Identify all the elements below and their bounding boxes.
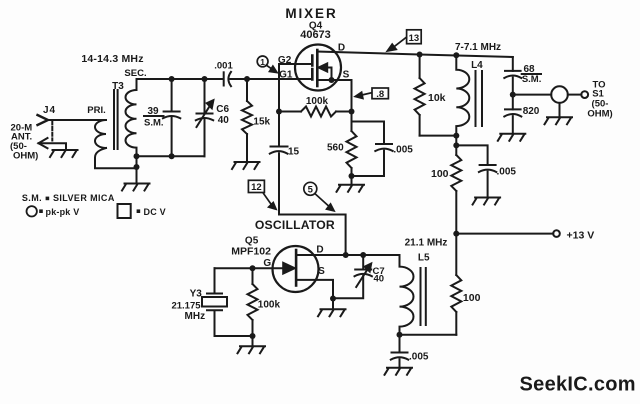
transistor Q5 gate arrow — [283, 263, 294, 274]
svg-text:MHz: MHz — [185, 311, 206, 322]
transformer T3 primary — [95, 120, 137, 168]
transistor Q5 channel — [295, 250, 298, 286]
svg-text:S.M.: S.M. — [522, 74, 542, 85]
wire (10k to L4 bottom) — [420, 135, 457, 137]
inductor L4 core — [476, 71, 483, 126]
capacitor C.001 — [224, 72, 231, 86]
junction (L4 bottom) — [453, 133, 459, 139]
svg-text:40: 40 — [218, 115, 230, 126]
svg-text:100k: 100k — [306, 96, 329, 107]
transistor Q5 oscillator JFET body — [273, 246, 319, 292]
resistor 10k — [415, 55, 425, 136]
svg-text:15k: 15k — [253, 117, 270, 128]
wire (oscillator injection) — [279, 153, 346, 255]
wire (+13V rail) — [456, 233, 553, 235]
svg-text:OHM): OHM) — [13, 150, 38, 161]
transistor Q4 channel — [316, 50, 319, 86]
capacitor 15 — [270, 79, 288, 154]
ground (560) — [337, 185, 365, 192]
junction (Q5 source gnd) — [330, 296, 336, 302]
wire (Q5 source) — [296, 280, 333, 309]
wire (top rail G1 line) — [137, 78, 224, 80]
capacitor 820 — [504, 95, 521, 134]
svg-text:S.M.: S.M. — [144, 118, 164, 129]
junction (crystal bottom) — [250, 333, 256, 339]
svg-text:21.1 MHz: 21.1 MHz — [405, 237, 448, 248]
junction (Q5 gate) — [250, 265, 256, 271]
transistor Q4 substrate arrow — [319, 63, 332, 80]
wire (output to S1) — [513, 94, 551, 96]
svg-text:SEC.: SEC. — [124, 68, 146, 79]
resistor 100k mixer — [279, 107, 352, 117]
legend DC square — [118, 204, 131, 218]
resistor 100k oscillator — [248, 268, 258, 336]
svg-text:1: 1 — [260, 57, 265, 67]
capacitor 68 S.M. — [504, 57, 521, 95]
svg-text:5: 5 — [308, 184, 314, 195]
svg-text:.8: .8 — [376, 89, 384, 100]
svg-text:SeekIC.com: SeekIC.com — [520, 374, 636, 396]
svg-text:820: 820 — [523, 106, 540, 117]
wire (L5 bottom rail) — [400, 334, 457, 336]
node 12 callout — [248, 180, 275, 209]
capacitor .005 mixer source — [352, 122, 393, 177]
ground (820) — [498, 134, 526, 141]
svg-text:D: D — [338, 43, 345, 54]
node 1 callout — [257, 56, 277, 72]
resistor 560 — [347, 112, 357, 177]
legend equals marks — [39, 197, 140, 213]
resistor 100 lower — [451, 234, 461, 335]
fraction bar 68 — [522, 73, 541, 75]
wire (Q5 gate) — [215, 267, 286, 269]
svg-text:40673: 40673 — [300, 29, 331, 41]
junction (L4 top) — [453, 52, 459, 58]
junction (39 cap bottom) — [169, 153, 175, 159]
wire (Q4 source) — [317, 80, 351, 112]
junction (output node) — [510, 92, 516, 98]
transformer T3 core — [114, 90, 118, 149]
svg-text:21.175: 21.175 — [171, 301, 201, 312]
crystal Y3 — [202, 268, 253, 346]
capacitor .005 drain — [456, 145, 496, 197]
junction (C6 top) — [202, 76, 208, 82]
wire (Q5 drain rail) — [296, 254, 399, 256]
ground (T3) — [122, 184, 150, 191]
resistor 100 upper — [451, 145, 461, 233]
connector S1 jack — [551, 86, 588, 117]
svg-text:L4: L4 — [471, 60, 483, 71]
ground (15k) — [232, 162, 260, 169]
svg-text:T3: T3 — [112, 81, 124, 92]
wire (after .001 to G1) — [231, 78, 312, 80]
capacitor C6 variable — [196, 79, 214, 156]
svg-text:.005: .005 — [497, 167, 517, 178]
node 13 callout — [388, 30, 422, 51]
svg-text:G: G — [263, 258, 271, 269]
svg-text:S: S — [318, 266, 325, 277]
capacitor C7 variable — [333, 255, 372, 298]
junction (Q4 substrate) — [329, 77, 335, 83]
node .8 callout — [356, 88, 389, 99]
svg-text:MIXER: MIXER — [285, 6, 337, 21]
connector J4 — [38, 115, 67, 150]
wire (tank bottom rail) — [137, 155, 205, 157]
svg-text:PRI.: PRI. — [87, 105, 105, 116]
inductor L5 core — [421, 268, 426, 325]
svg-text:D: D — [316, 245, 323, 256]
capacitor .005 L5 — [391, 335, 408, 368]
junction (Q4 source node) — [349, 109, 355, 115]
svg-text:.001: .001 — [214, 60, 233, 71]
ground (J4 shell) — [50, 150, 78, 157]
wire (ground tie) — [136, 156, 138, 183]
svg-text:OHM): OHM) — [587, 109, 612, 120]
transformer T3 secondary — [126, 79, 137, 167]
wire (560 ground stem) — [351, 176, 353, 185]
svg-text:.005: .005 — [409, 351, 429, 362]
svg-text:J4: J4 — [43, 105, 56, 116]
svg-text:39: 39 — [147, 106, 159, 117]
wire (Q4 drain rail) — [317, 52, 513, 58]
svg-text:C6: C6 — [216, 104, 229, 115]
svg-text:7-7.1 MHz: 7-7.1 MHz — [455, 42, 501, 53]
legend pk-pk circle — [27, 206, 37, 216]
junction (10k top) — [417, 52, 423, 58]
svg-text:100k: 100k — [258, 300, 281, 311]
svg-text:10k: 10k — [428, 92, 446, 104]
svg-text:+13 V: +13 V — [567, 230, 595, 242]
svg-text:14-14.3 MHz: 14-14.3 MHz — [81, 53, 143, 65]
ground (.005 drain) — [473, 198, 501, 205]
wire (antenna input) — [49, 119, 106, 121]
svg-text:DC V: DC V — [144, 207, 166, 217]
node +13V terminal — [553, 230, 560, 237]
junction (100k left) — [276, 109, 282, 115]
capacitor 39 S.M. — [163, 79, 180, 156]
inductor L4 — [456, 55, 469, 145]
resistor 15k — [242, 79, 252, 162]
junction (15k top) — [244, 76, 250, 82]
svg-text:13: 13 — [409, 33, 420, 44]
svg-text:G2: G2 — [278, 55, 292, 66]
svg-text:OSCILLATOR: OSCILLATOR — [255, 218, 335, 232]
junction (560 bottom) — [349, 173, 355, 179]
node 5 callout — [304, 182, 334, 210]
fraction bar 39 — [144, 115, 164, 117]
svg-text:pk-pk V: pk-pk V — [46, 207, 80, 217]
inductor L5 — [400, 255, 414, 335]
svg-text:S: S — [343, 70, 350, 81]
svg-text:12: 12 — [251, 182, 262, 193]
junction (39 cap top) — [169, 76, 175, 82]
svg-text:.005: .005 — [393, 144, 413, 155]
svg-text:S.M.: S.M. — [22, 193, 42, 203]
junction (injection/drain) — [343, 252, 349, 258]
svg-text:100: 100 — [463, 292, 481, 304]
svg-text:100: 100 — [431, 168, 449, 180]
svg-text:560: 560 — [327, 143, 344, 154]
junction (sec bottom) — [134, 153, 140, 159]
junction (L5 bottom) — [397, 332, 403, 338]
junction (decoupling node) — [453, 142, 459, 148]
svg-text:SILVER MICA: SILVER MICA — [53, 193, 115, 203]
wire (G2 riser) — [279, 64, 311, 79]
transistor Q4 gate bars — [311, 56, 314, 80]
ground (Y3/100k) — [238, 346, 266, 353]
junction (+13V rail) — [453, 231, 459, 237]
svg-text:G1: G1 — [279, 70, 293, 81]
svg-text:Y3: Y3 — [190, 289, 203, 300]
ground (.005 L5) — [385, 368, 413, 375]
svg-text:L5: L5 — [418, 253, 430, 264]
junction (C7 top) — [360, 252, 366, 258]
transistor Q4 mixer MOSFET body — [295, 45, 341, 91]
ground (Q5 source) — [318, 309, 346, 316]
ground (S1) — [545, 117, 573, 124]
svg-text:40: 40 — [374, 274, 385, 285]
svg-text:MPF102: MPF102 — [231, 245, 271, 257]
svg-text:15: 15 — [288, 147, 300, 158]
junction (pri bottom) — [134, 164, 140, 170]
